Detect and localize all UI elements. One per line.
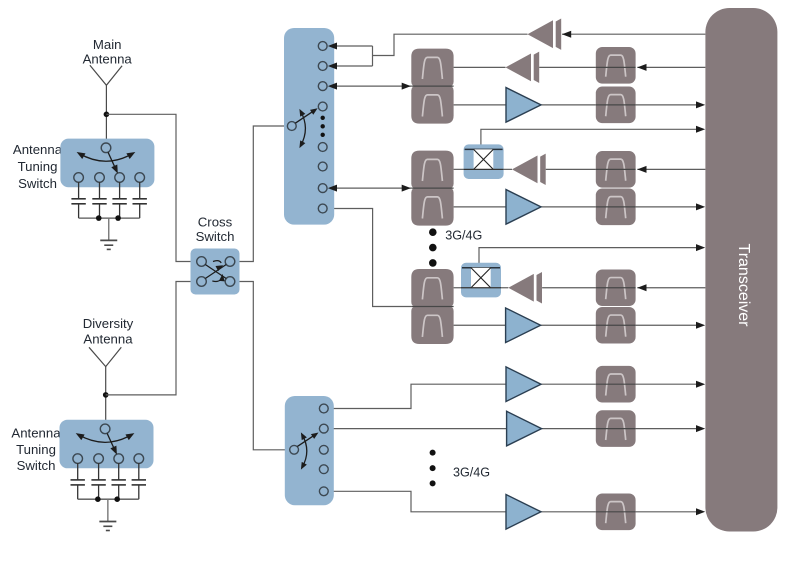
svg-text:Diversity: Diversity (83, 316, 134, 331)
svg-text:Tuning: Tuning (18, 159, 58, 174)
svg-text:Switch: Switch (17, 458, 56, 473)
svg-text:Antenna: Antenna (11, 426, 61, 441)
svg-text:Tuning: Tuning (16, 442, 56, 457)
svg-text:Antenna: Antenna (83, 52, 133, 67)
svg-text:Antenna: Antenna (13, 142, 63, 157)
svg-text:3G/4G: 3G/4G (453, 465, 490, 479)
svg-text:3G/4G: 3G/4G (445, 229, 482, 243)
svg-text:Switch: Switch (196, 229, 235, 244)
svg-text:Transceiver: Transceiver (735, 244, 752, 328)
svg-text:Main: Main (93, 37, 122, 52)
svg-text:Antenna: Antenna (83, 332, 133, 347)
svg-text:Cross: Cross (198, 215, 233, 230)
svg-text:Switch: Switch (18, 176, 57, 191)
